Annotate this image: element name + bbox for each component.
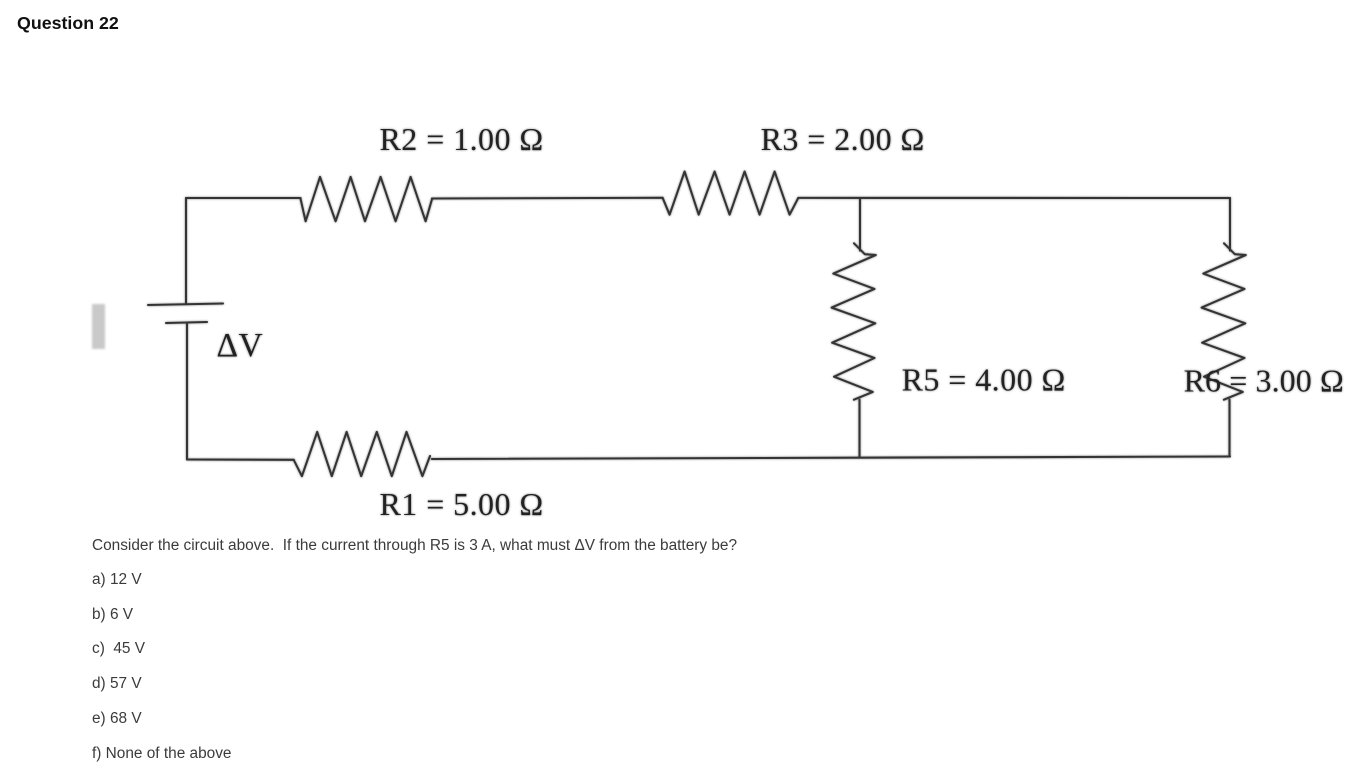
cursor bar artifact (92, 304, 105, 349)
circuit figure (0, 0, 1, 1)
circuit drawing soft halo layer (0, 0, 1361, 540)
circuit drawing main layer (0, 0, 1361, 540)
